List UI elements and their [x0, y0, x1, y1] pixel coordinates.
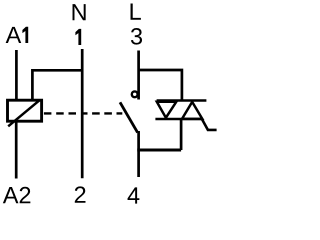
- pin number 1: [75, 29, 81, 45]
- wire branch from L line to triac: [139, 70, 182, 100]
- pin number 4: [128, 187, 140, 203]
- terminal label L: [131, 4, 141, 20]
- wire L lead (terminal 3): [137, 51, 140, 100]
- wire N lead (terminal 1 to 2): [81, 49, 84, 178]
- wire terminal 4 lead: [137, 131, 140, 177]
- pin number 3: [131, 28, 142, 45]
- pin number 2: [75, 186, 86, 202]
- wire A1 lead: [15, 50, 18, 100]
- terminal label A1: [6, 27, 29, 43]
- wire junction from switch to triac bottom: [137, 149, 181, 152]
- switch lever: [120, 102, 138, 132]
- switch contact circle: [132, 91, 138, 97]
- triac V1 bottom bar: [155, 118, 202, 121]
- wire triac bottom riser: [180, 120, 183, 150]
- mechanical link dashed segment left: [44, 112, 77, 114]
- triac V1 top bar: [157, 99, 207, 102]
- triac V1 right triangle: [182, 102, 202, 119]
- coil K1: [8, 100, 42, 126]
- terminal label A2: [3, 187, 31, 203]
- triac V1 left triangle: [157, 102, 177, 118]
- terminal label N: [73, 4, 86, 20]
- mechanical link dashed segment right: [83, 112, 122, 114]
- wire A2 lead: [15, 121, 18, 179]
- wire branch from N line to coil: [32, 70, 82, 99]
- triac gate lead: [202, 119, 217, 130]
